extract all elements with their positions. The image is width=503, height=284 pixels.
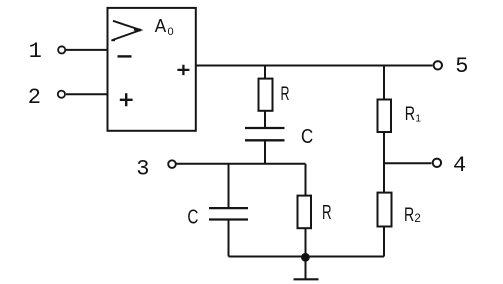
wire node3 down to resistor R (lower): [305, 164, 307, 196]
capacitor C (shunt, bottom plate): [209, 218, 248, 220]
terminal circle 2: [58, 91, 65, 98]
plus sign (output polarity label): [177, 65, 189, 75]
svg-text:C: C: [301, 125, 313, 148]
svg-text:5: 5: [455, 54, 468, 79]
junction dot: [301, 253, 310, 262]
plus sign (non-inverting input label): [120, 93, 133, 106]
svg-text:R: R: [405, 103, 415, 125]
wire node3 down to shunt capacitor: [228, 164, 230, 207]
resistor R2: [378, 193, 392, 227]
terminal circle 1: [58, 46, 65, 53]
wire node4 to terminal 4: [384, 162, 432, 164]
svg-text:A: A: [155, 15, 167, 36]
ground bar: [294, 278, 319, 280]
wire output to resistor R1: [383, 66, 385, 100]
svg-text:2: 2: [414, 213, 420, 225]
wire shunt capacitor to bottom rail: [228, 220, 230, 257]
svg-text:4: 4: [453, 153, 466, 178]
wire lower R to bottom rail: [305, 228, 307, 257]
wire R1 to node4: [383, 132, 385, 193]
capacitor C (series, bottom plate): [245, 139, 285, 141]
wire R2 to bottom rail: [383, 227, 385, 257]
capacitor C (shunt, top plate): [209, 207, 248, 209]
resistor R1: [378, 100, 392, 133]
op-amp symbol tip blob: [134, 29, 141, 30]
wire terminal1 to op-amp: [66, 49, 108, 51]
svg-text:3: 3: [136, 156, 149, 181]
svg-text:C: C: [187, 206, 198, 229]
ground stem: [305, 258, 307, 279]
svg-text:1: 1: [29, 39, 42, 64]
svg-text:R: R: [404, 204, 414, 226]
op-amp U1 box: [108, 8, 196, 131]
resistor R (top): [259, 79, 273, 111]
output wire (node 5 net): [196, 65, 433, 67]
op-amp gain symbol (triangle chevron): [113, 21, 141, 40]
svg-text:R: R: [281, 83, 290, 105]
resistor R (lower): [298, 196, 312, 229]
terminal circle 4: [433, 159, 441, 167]
op-amp symbol tail serif: [111, 39, 115, 41]
wire output to resistor R top: [264, 66, 266, 79]
capacitor C (series, top plate): [245, 127, 285, 129]
minus sign (inverting input label): [118, 55, 132, 57]
svg-text:R: R: [322, 202, 332, 224]
svg-text:0: 0: [168, 26, 174, 38]
svg-text:1: 1: [415, 114, 421, 125]
svg-text:2: 2: [28, 85, 41, 110]
wire terminal2 to op-amp: [66, 93, 108, 95]
terminal circle 5: [434, 61, 442, 69]
bottom ground rail wire: [229, 256, 385, 258]
wire capacitor bottom to node3 wire: [264, 140, 266, 164]
wire R bottom to capacitor C top: [264, 111, 266, 128]
terminal circle 3: [168, 160, 176, 168]
wire terminal3 horizontal: [177, 163, 306, 165]
